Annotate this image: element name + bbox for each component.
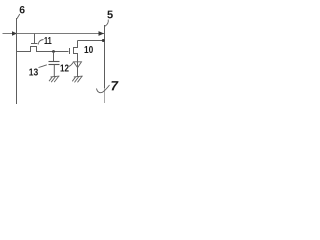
junction dot at capacitor tap <box>52 50 55 53</box>
svg-text:5: 5 <box>107 9 113 21</box>
label 6 leader line <box>17 14 20 19</box>
svg-text:6: 6 <box>19 5 25 16</box>
transistor 11 gate bar <box>31 43 38 45</box>
transistor 10 channel with bump (vertical) <box>74 41 78 63</box>
ground under capacitor <box>49 76 59 82</box>
wire: left vertical line (node 6) <box>16 18 18 104</box>
wire: right vertical line faint lower part <box>104 88 106 103</box>
svg-text:12: 12 <box>60 62 69 73</box>
label 11 leader line <box>38 40 43 45</box>
ground under triangle <box>72 76 82 82</box>
svg-text:7: 7 <box>111 78 120 93</box>
arrowhead on bus at right vertical line <box>99 31 105 36</box>
label 13 leader line <box>39 65 47 68</box>
capacitor 12 lower lead wire <box>53 65 55 77</box>
junction dot on right vertical <box>102 39 105 42</box>
transistor 10 gate bar <box>69 48 71 54</box>
label 12 leader line <box>69 62 73 66</box>
wire: horizontal gate bus <box>3 33 105 35</box>
label 7 leader line <box>97 85 110 93</box>
svg-text:11: 11 <box>44 35 52 46</box>
wire: branch from right vertical to transistor 10 <box>78 40 105 42</box>
capacitor 12 top plate <box>49 61 60 63</box>
svg-text:10: 10 <box>84 43 93 55</box>
transistor 11 gate lead wire <box>34 34 36 44</box>
capacitor 12 bottom plate <box>49 64 60 66</box>
label 5 leader line <box>105 20 108 27</box>
svg-text:13: 13 <box>29 67 38 79</box>
wire from triangle to ground <box>77 62 79 77</box>
transistor 11 channel with bump <box>17 47 69 52</box>
capacitor 12 upper lead wire <box>53 52 55 62</box>
arrowhead on bus at left vertical line <box>12 31 17 35</box>
triangle element below transistor 10 <box>74 62 82 68</box>
wire: right vertical line (node 5/7) <box>104 25 106 88</box>
